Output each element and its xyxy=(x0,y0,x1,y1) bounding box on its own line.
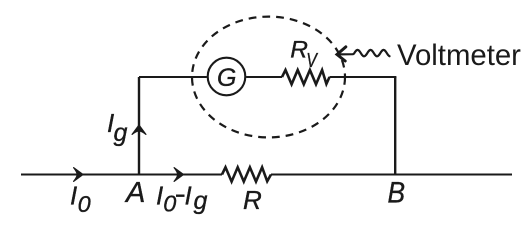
svg-text:I: I xyxy=(185,181,192,211)
arrow: squiggly pointer from Voltmeter label to ellipse (arrowhead) xyxy=(337,47,346,61)
wire: vertical branch at node A xyxy=(138,77,140,175)
arrow: current I0-Ig direction on bottom wire xyxy=(174,168,183,182)
svg-text:I: I xyxy=(156,181,163,211)
svg-text:g: g xyxy=(194,187,208,215)
wire: between galvanometer and resistor RV xyxy=(246,76,282,78)
wire: right vertical drop to node B xyxy=(394,77,396,175)
resistor RV (zigzag on top wire) xyxy=(282,70,330,84)
svg-text:Voltmeter: Voltmeter xyxy=(397,39,521,72)
arrow: squiggly pointer wavy shaft xyxy=(338,50,390,56)
resistor R (zigzag on bottom wire) xyxy=(222,167,271,181)
svg-text:V: V xyxy=(306,48,318,71)
galvanometer G (circle) xyxy=(208,58,246,96)
arrow: current I0 direction on bottom wire xyxy=(74,168,83,182)
svg-text:R: R xyxy=(243,185,262,215)
svg-text:I: I xyxy=(70,181,77,211)
arrow: current Ig direction (upward) on branch wire xyxy=(132,125,146,134)
svg-text:0: 0 xyxy=(78,191,91,217)
svg-text:0: 0 xyxy=(163,191,176,217)
svg-text:A: A xyxy=(124,177,145,209)
svg-text:B: B xyxy=(388,175,406,209)
svg-text:G: G xyxy=(217,64,236,92)
wire: bottom main line, right segment from resistor R to right end xyxy=(271,174,512,176)
voltmeter boundary (dashed ellipse around G and RV) xyxy=(192,17,345,138)
wire: bottom main line, left segment to resistor R xyxy=(21,174,222,176)
wire: top line from corner A-branch to galvanometer xyxy=(139,76,207,78)
svg-text:R: R xyxy=(290,36,308,63)
svg-text:g: g xyxy=(114,119,128,147)
wire: top line from resistor RV to right corner xyxy=(330,76,397,78)
